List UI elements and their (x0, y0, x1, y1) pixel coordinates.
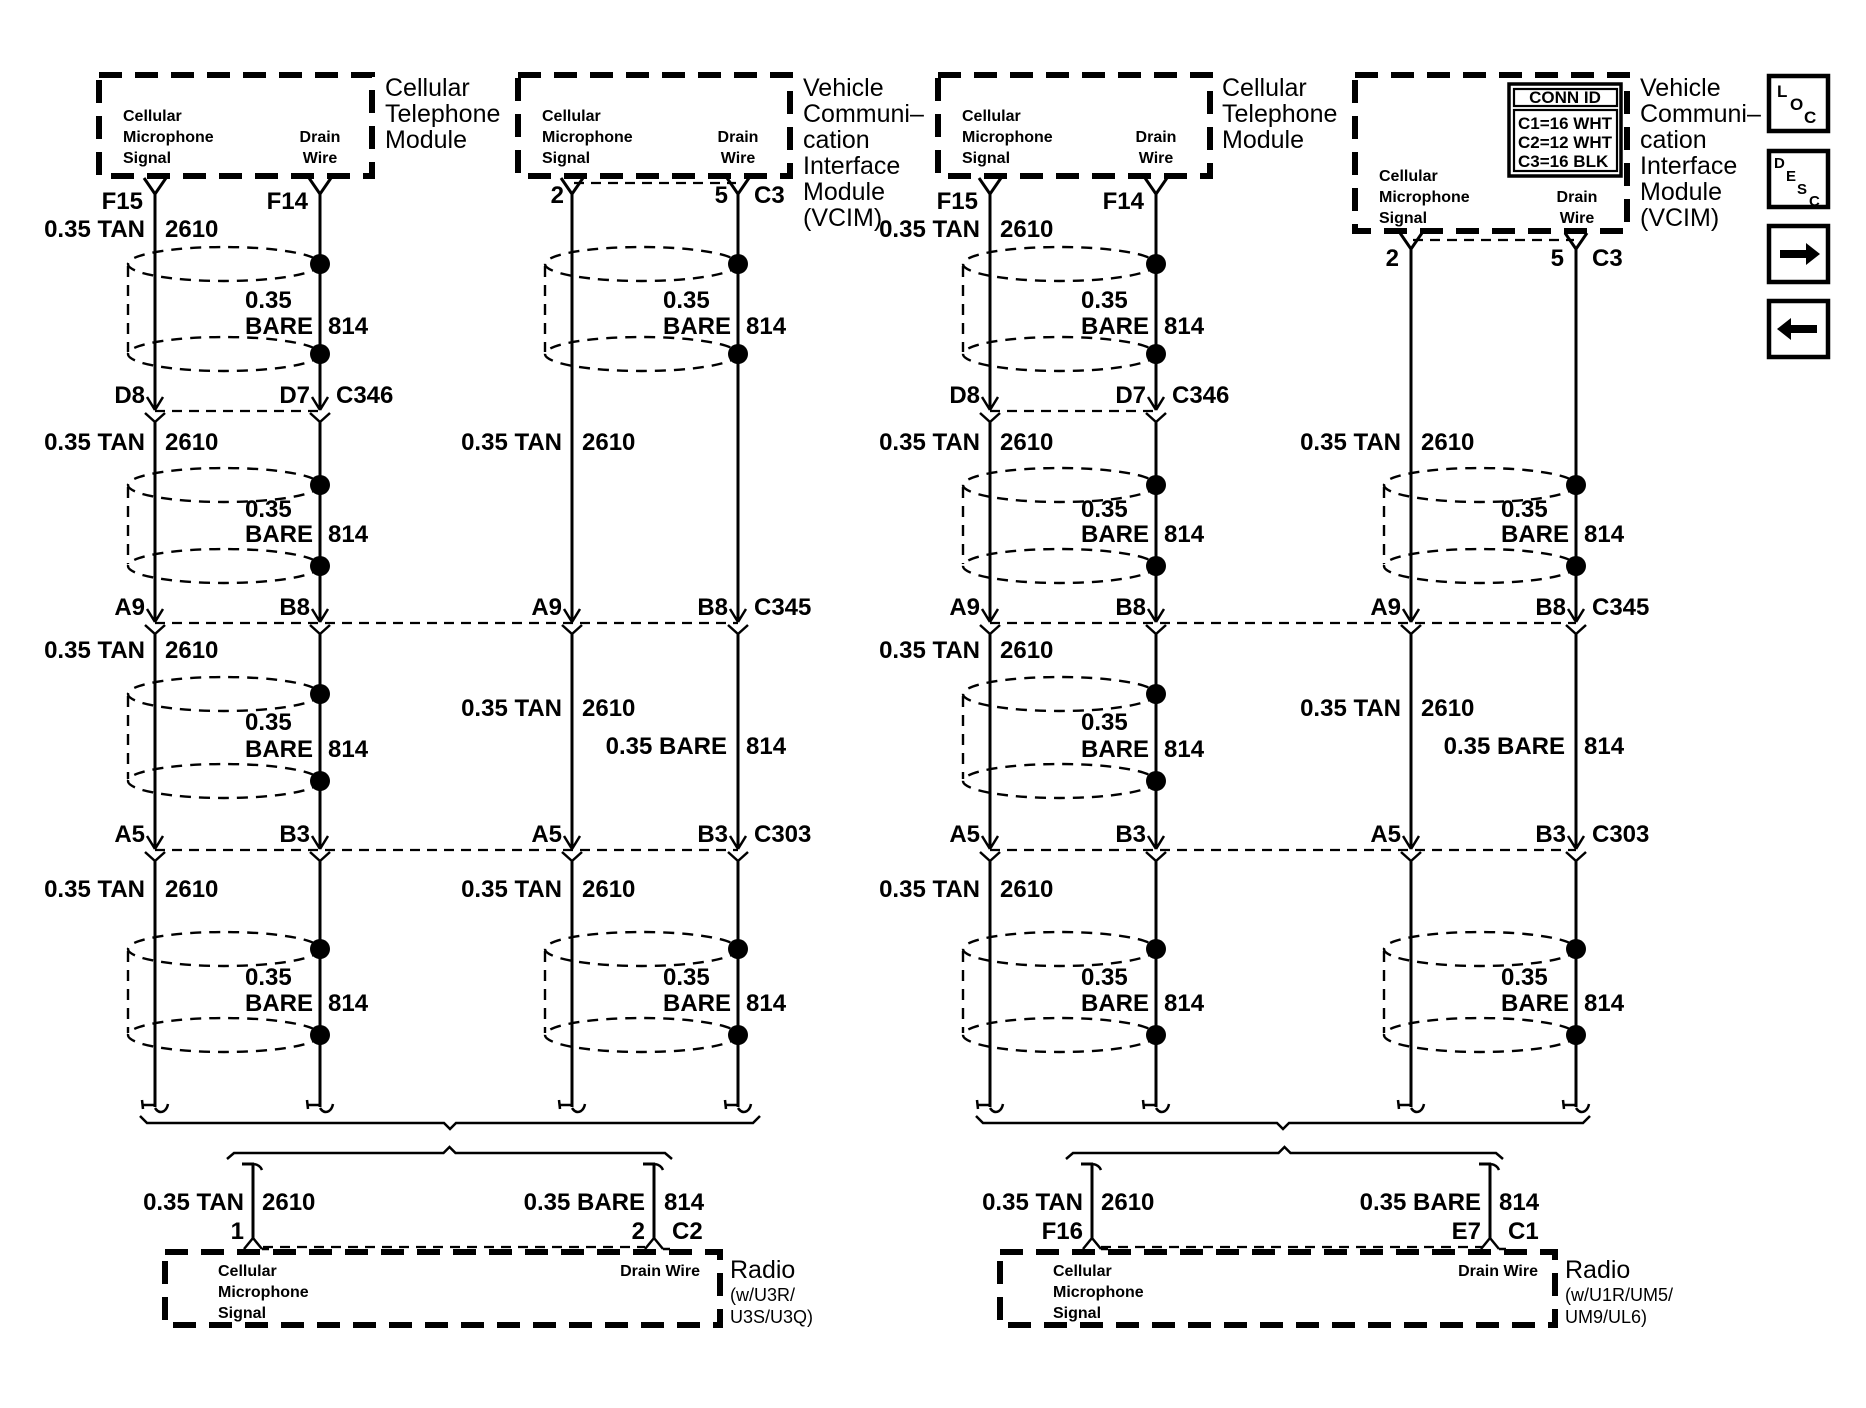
svg-text:Module: Module (1222, 126, 1304, 154)
svg-text:C2: C2 (672, 1218, 703, 1245)
svg-text:Communi–: Communi– (1640, 100, 1761, 128)
svg-text:1: 1 (231, 1218, 244, 1245)
svg-text:2610: 2610 (165, 637, 218, 664)
svg-text:B3: B3 (697, 821, 728, 848)
svg-text:0.35: 0.35 (245, 964, 292, 991)
svg-text:2610: 2610 (1101, 1189, 1154, 1216)
svg-text:C1: C1 (1508, 1218, 1539, 1245)
svg-text:Cellular: Cellular (385, 74, 470, 102)
svg-text:2610: 2610 (1000, 429, 1053, 456)
svg-text:814: 814 (1584, 733, 1625, 760)
svg-text:2610: 2610 (582, 695, 635, 722)
svg-text:D7: D7 (1115, 382, 1146, 409)
svg-text:E7: E7 (1452, 1218, 1481, 1245)
svg-text:F14: F14 (267, 188, 309, 215)
svg-text:UM9/UL6): UM9/UL6) (1565, 1307, 1647, 1327)
svg-text:0.35 BARE: 0.35 BARE (1360, 1189, 1481, 1216)
svg-text:Module: Module (385, 126, 467, 154)
svg-text:BARE: BARE (1081, 736, 1149, 763)
svg-text:0.35 TAN: 0.35 TAN (143, 1189, 244, 1216)
svg-text:Signal: Signal (1379, 210, 1427, 227)
svg-text:814: 814 (1584, 990, 1625, 1017)
svg-text:Cellular: Cellular (962, 108, 1021, 125)
svg-text:A9: A9 (949, 594, 980, 621)
svg-text:0.35 TAN: 0.35 TAN (44, 637, 145, 664)
svg-text:Interface: Interface (803, 152, 900, 180)
svg-text:814: 814 (664, 1189, 705, 1216)
svg-text:0.35 BARE: 0.35 BARE (524, 1189, 645, 1216)
svg-text:C3=16 BLK: C3=16 BLK (1518, 152, 1609, 171)
svg-text:E: E (1786, 168, 1796, 185)
svg-text:BARE: BARE (1501, 521, 1569, 548)
svg-text:C2=12 WHT: C2=12 WHT (1518, 133, 1613, 152)
svg-text:A5: A5 (531, 821, 562, 848)
svg-text:F15: F15 (102, 188, 143, 215)
svg-text:0.35 TAN: 0.35 TAN (1300, 429, 1401, 456)
svg-text:0.35: 0.35 (245, 496, 292, 523)
svg-text:2: 2 (632, 1218, 645, 1245)
svg-text:cation: cation (1640, 126, 1707, 154)
svg-text:0.35 TAN: 0.35 TAN (982, 1189, 1083, 1216)
svg-text:D: D (1774, 155, 1785, 172)
svg-text:(VCIM): (VCIM) (1640, 204, 1719, 232)
svg-text:0.35 TAN: 0.35 TAN (461, 429, 562, 456)
svg-text:Cellular: Cellular (218, 1263, 277, 1280)
svg-text:Drain Wire: Drain Wire (1458, 1263, 1538, 1280)
svg-text:B3: B3 (1115, 821, 1146, 848)
svg-text:B8: B8 (1535, 594, 1566, 621)
svg-text:0.35 TAN: 0.35 TAN (1300, 695, 1401, 722)
svg-text:BARE: BARE (1081, 313, 1149, 340)
svg-text:814: 814 (328, 736, 369, 763)
svg-text:814: 814 (328, 313, 369, 340)
svg-text:D8: D8 (949, 382, 980, 409)
svg-text:2610: 2610 (165, 876, 218, 903)
svg-text:BARE: BARE (663, 990, 731, 1017)
svg-text:C3: C3 (1592, 245, 1623, 272)
svg-text:Vehicle: Vehicle (803, 74, 884, 102)
svg-text:F16: F16 (1042, 1218, 1083, 1245)
svg-text:Cellular: Cellular (542, 108, 601, 125)
svg-text:BARE: BARE (663, 313, 731, 340)
svg-text:F14: F14 (1103, 188, 1145, 215)
svg-text:2610: 2610 (1000, 876, 1053, 903)
svg-text:0.35: 0.35 (1501, 964, 1548, 991)
svg-text:Cellular: Cellular (1222, 74, 1307, 102)
svg-text:0.35: 0.35 (1081, 964, 1128, 991)
svg-text:A9: A9 (1370, 594, 1401, 621)
svg-text:C3: C3 (754, 182, 785, 209)
svg-text:2610: 2610 (165, 429, 218, 456)
svg-text:BARE: BARE (1501, 990, 1569, 1017)
svg-text:814: 814 (1164, 521, 1205, 548)
svg-text:A9: A9 (114, 594, 145, 621)
svg-text:A5: A5 (114, 821, 145, 848)
svg-text:5: 5 (1551, 245, 1564, 272)
svg-text:CONN ID: CONN ID (1529, 88, 1601, 107)
svg-text:2610: 2610 (165, 216, 218, 243)
svg-text:Drain: Drain (1136, 129, 1177, 146)
svg-text:0.35 TAN: 0.35 TAN (44, 216, 145, 243)
svg-text:Wire: Wire (721, 150, 756, 167)
svg-text:814: 814 (1584, 521, 1625, 548)
svg-text:BARE: BARE (245, 736, 313, 763)
svg-text:B8: B8 (697, 594, 728, 621)
svg-text:(VCIM): (VCIM) (803, 204, 882, 232)
svg-text:B3: B3 (1535, 821, 1566, 848)
svg-text:B8: B8 (279, 594, 310, 621)
svg-text:Wire: Wire (1560, 210, 1595, 227)
svg-text:BARE: BARE (245, 313, 313, 340)
svg-text:A5: A5 (1370, 821, 1401, 848)
svg-text:B8: B8 (1115, 594, 1146, 621)
svg-text:Cellular: Cellular (123, 108, 182, 125)
svg-text:Signal: Signal (542, 150, 590, 167)
svg-text:C346: C346 (336, 382, 393, 409)
svg-text:814: 814 (746, 733, 787, 760)
svg-text:F15: F15 (937, 188, 978, 215)
svg-text:Microphone: Microphone (123, 129, 214, 146)
svg-text:0.35: 0.35 (1081, 287, 1128, 314)
svg-text:L: L (1777, 82, 1787, 101)
svg-text:C: C (1809, 193, 1820, 210)
svg-text:Signal: Signal (962, 150, 1010, 167)
svg-text:A5: A5 (949, 821, 980, 848)
svg-text:0.35: 0.35 (663, 964, 710, 991)
svg-text:Microphone: Microphone (218, 1284, 309, 1301)
svg-text:0.35: 0.35 (245, 709, 292, 736)
svg-text:Cellular: Cellular (1053, 1263, 1112, 1280)
svg-text:2: 2 (1386, 245, 1399, 272)
svg-text:BARE: BARE (1081, 521, 1149, 548)
svg-text:814: 814 (1164, 313, 1205, 340)
svg-text:Drain: Drain (1557, 189, 1598, 206)
svg-text:Signal: Signal (123, 150, 171, 167)
svg-text:0.35 TAN: 0.35 TAN (461, 695, 562, 722)
svg-text:C303: C303 (754, 821, 811, 848)
svg-text:Interface: Interface (1640, 152, 1737, 180)
svg-text:Cellular: Cellular (1379, 168, 1438, 185)
svg-text:2610: 2610 (582, 429, 635, 456)
svg-text:2610: 2610 (1000, 216, 1053, 243)
svg-text:cation: cation (803, 126, 870, 154)
svg-text:0.35 TAN: 0.35 TAN (879, 216, 980, 243)
svg-text:0.35: 0.35 (1081, 709, 1128, 736)
svg-text:Wire: Wire (303, 150, 338, 167)
svg-text:BARE: BARE (1081, 990, 1149, 1017)
svg-text:Signal: Signal (1053, 1305, 1101, 1322)
svg-text:B3: B3 (279, 821, 310, 848)
svg-text:814: 814 (1499, 1189, 1540, 1216)
svg-text:0.35: 0.35 (245, 287, 292, 314)
svg-text:Drain Wire: Drain Wire (620, 1263, 700, 1280)
svg-text:2610: 2610 (1000, 637, 1053, 664)
svg-text:Wire: Wire (1139, 150, 1174, 167)
svg-text:BARE: BARE (245, 990, 313, 1017)
svg-text:2610: 2610 (582, 876, 635, 903)
svg-text:0.35: 0.35 (1081, 496, 1128, 523)
svg-text:Communi–: Communi– (803, 100, 924, 128)
svg-text:Drain: Drain (718, 129, 759, 146)
svg-text:C303: C303 (1592, 821, 1649, 848)
svg-text:Microphone: Microphone (1053, 1284, 1144, 1301)
svg-text:0.35: 0.35 (1501, 496, 1548, 523)
svg-text:C346: C346 (1172, 382, 1229, 409)
svg-text:814: 814 (746, 313, 787, 340)
svg-text:D8: D8 (114, 382, 145, 409)
svg-text:0.35 TAN: 0.35 TAN (879, 429, 980, 456)
svg-text:D7: D7 (279, 382, 310, 409)
svg-text:Microphone: Microphone (542, 129, 633, 146)
svg-text:Signal: Signal (218, 1305, 266, 1322)
svg-text:2610: 2610 (1421, 429, 1474, 456)
svg-text:Drain: Drain (300, 129, 341, 146)
svg-text:5: 5 (715, 182, 728, 209)
svg-text:C: C (1804, 108, 1816, 127)
svg-text:0.35 BARE: 0.35 BARE (606, 733, 727, 760)
svg-text:Vehicle: Vehicle (1640, 74, 1721, 102)
svg-text:0.35 TAN: 0.35 TAN (44, 429, 145, 456)
svg-text:814: 814 (328, 521, 369, 548)
svg-text:Telephone: Telephone (385, 100, 500, 128)
svg-text:0.35 TAN: 0.35 TAN (44, 876, 145, 903)
svg-text:Microphone: Microphone (1379, 189, 1470, 206)
svg-text:Module: Module (1640, 178, 1722, 206)
svg-text:814: 814 (1164, 990, 1205, 1017)
svg-text:Microphone: Microphone (962, 129, 1053, 146)
svg-text:2610: 2610 (262, 1189, 315, 1216)
svg-text:C345: C345 (1592, 594, 1649, 621)
svg-text:BARE: BARE (245, 521, 313, 548)
svg-text:814: 814 (1164, 736, 1205, 763)
svg-text:S: S (1797, 181, 1807, 198)
svg-text:C345: C345 (754, 594, 811, 621)
svg-text:Telephone: Telephone (1222, 100, 1337, 128)
svg-text:Radio: Radio (1565, 1256, 1630, 1284)
svg-text:(w/U3R/: (w/U3R/ (730, 1285, 795, 1305)
svg-text:U3S/U3Q): U3S/U3Q) (730, 1307, 813, 1327)
svg-text:2: 2 (551, 182, 564, 209)
svg-text:814: 814 (328, 990, 369, 1017)
svg-text:0.35 BARE: 0.35 BARE (1444, 733, 1565, 760)
svg-text:Module: Module (803, 178, 885, 206)
svg-text:Radio: Radio (730, 1256, 795, 1284)
svg-text:0.35 TAN: 0.35 TAN (879, 637, 980, 664)
svg-text:O: O (1790, 95, 1803, 114)
svg-text:(w/U1R/UM5/: (w/U1R/UM5/ (1565, 1285, 1673, 1305)
svg-text:0.35 TAN: 0.35 TAN (879, 876, 980, 903)
svg-text:C1=16 WHT: C1=16 WHT (1518, 114, 1613, 133)
svg-text:2610: 2610 (1421, 695, 1474, 722)
svg-text:0.35 TAN: 0.35 TAN (461, 876, 562, 903)
svg-text:0.35: 0.35 (663, 287, 710, 314)
svg-text:A9: A9 (531, 594, 562, 621)
svg-text:814: 814 (746, 990, 787, 1017)
